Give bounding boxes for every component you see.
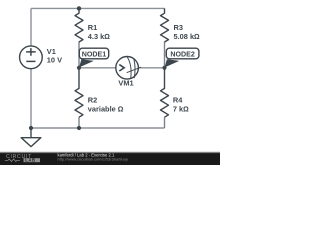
junction node A xyxy=(77,66,81,70)
svg-text:R3: R3 xyxy=(174,23,183,32)
junction R2 bottom xyxy=(77,126,81,130)
resistor R3 xyxy=(161,8,169,42)
svg-text:NODE2: NODE2 xyxy=(170,50,194,58)
wire R4 bottom lead xyxy=(164,117,166,128)
footer logo CircuitLab xyxy=(5,154,40,163)
wire left vertical top (V1 to top rail) xyxy=(30,8,32,46)
footer bar xyxy=(0,151,220,165)
resistor R1 xyxy=(75,8,83,42)
svg-text:R2: R2 xyxy=(88,96,97,105)
node NODE2 flag xyxy=(165,48,199,67)
wire top rail xyxy=(31,7,165,9)
svg-text:NODE1: NODE1 xyxy=(82,50,106,58)
wire R1 bottom lead xyxy=(78,42,80,68)
wire R3 bottom lead xyxy=(164,42,166,68)
svg-text:4.3 kΩ: 4.3 kΩ xyxy=(88,32,110,41)
svg-text:VM1: VM1 xyxy=(118,79,133,88)
svg-text:R1: R1 xyxy=(88,23,97,32)
wire bottom rail xyxy=(31,127,165,129)
wire middle right (VM1 to NODE2) xyxy=(138,67,165,69)
wire middle left (NODE1 to VM1) xyxy=(79,67,116,69)
voltmeter VM1 xyxy=(116,57,141,80)
junction bottom-left xyxy=(29,126,33,130)
wire left vertical bottom (V1 to bottom rail) xyxy=(30,69,32,128)
voltage source V1 xyxy=(20,46,43,69)
junction node B xyxy=(162,66,166,70)
svg-text:http://www.circuitlab.com/c/53: http://www.circuitlab.com/c/53r3ba/9uuy xyxy=(58,157,128,162)
svg-text:7 kΩ: 7 kΩ xyxy=(173,105,189,114)
resistor R2 xyxy=(75,68,83,117)
ground xyxy=(21,128,41,147)
svg-text:variable Ω: variable Ω xyxy=(88,105,124,114)
svg-text:5.08 kΩ: 5.08 kΩ xyxy=(174,32,201,41)
svg-text:10 V: 10 V xyxy=(47,55,62,64)
node NODE1 flag xyxy=(79,48,109,67)
svg-text:R4: R4 xyxy=(173,96,183,105)
resistor R4 xyxy=(161,68,169,117)
junction R1 top xyxy=(77,6,81,10)
svg-text:LAB: LAB xyxy=(25,158,35,163)
wire R2 bottom lead xyxy=(78,117,80,128)
